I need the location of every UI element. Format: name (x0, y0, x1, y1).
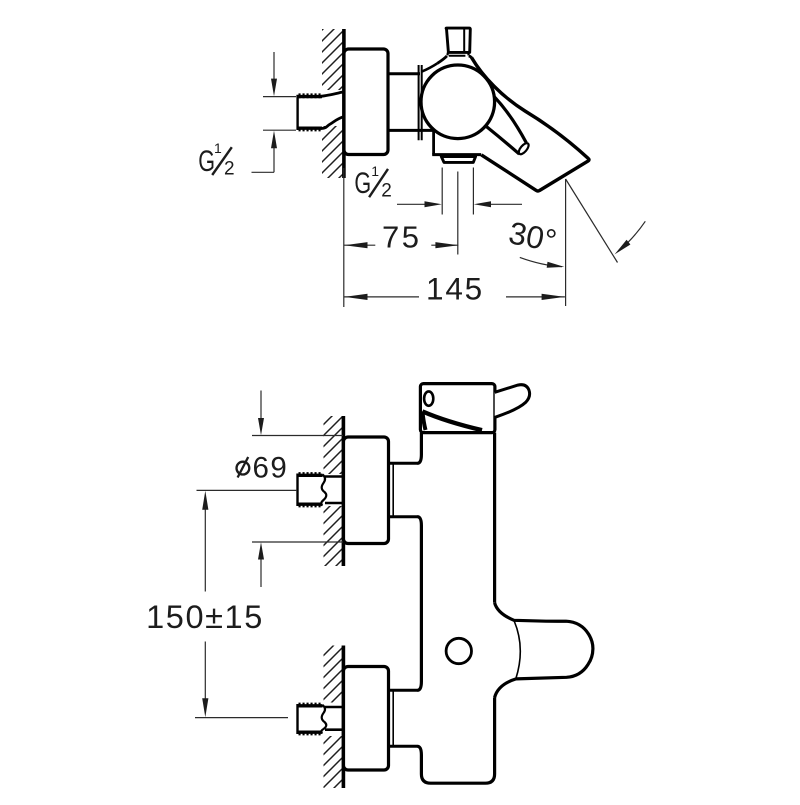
inlet nipple G1/2 (threaded, eccentric taper) (298, 92, 344, 130)
lower nipple (298, 704, 344, 734)
extension lines inlet diameter (263, 96, 296, 98)
wall face extension line (343, 168, 345, 307)
30 deg vertical reference (565, 179, 567, 306)
small circle (diverter) on body (446, 638, 471, 663)
flange dia extension lines (252, 435, 343, 437)
lever tube with elliptical end (486, 97, 530, 156)
wall hatching lower segment (322, 126, 343, 178)
svg-text:2: 2 (381, 181, 392, 202)
handle housing (top box) (420, 384, 495, 433)
30 deg arc left (520, 257, 562, 266)
upper flange (escutcheon) (344, 437, 389, 544)
lower wall hatching (324, 646, 344, 703)
cartridge circle (421, 65, 495, 139)
lower wall face line (342, 646, 346, 789)
svg-text:1: 1 (214, 140, 222, 156)
svg-text:75: 75 (382, 219, 421, 254)
spout bulge (right side profile) (495, 603, 593, 698)
arrow stems (260, 391, 262, 419)
30 deg arc right (619, 221, 646, 251)
150 extension lines (197, 489, 298, 491)
svg-text:150±15: 150±15 (146, 599, 264, 635)
outlet extension lines (441, 168, 443, 215)
150 dimension line (204, 500, 206, 592)
upper wall face line (342, 416, 346, 566)
main body outline (front profile) (417, 433, 494, 784)
upper connector (389, 463, 418, 516)
handle knob (446, 28, 470, 52)
outlet width arrow stems (397, 203, 425, 205)
svg-text:1: 1 (371, 163, 379, 179)
label G1/2 (left inlet) (198, 140, 234, 179)
upper wall hatching (324, 416, 344, 474)
svg-text:G: G (354, 165, 371, 199)
handle neck and cone (422, 53, 472, 72)
wall face line (342, 29, 346, 178)
145 dimension line (broken for text) (344, 296, 419, 298)
knob ellipse on housing (424, 391, 433, 405)
body lower outline (432, 130, 481, 155)
svg-text:145: 145 (426, 270, 484, 306)
upper nipple (298, 474, 344, 507)
bottom outlet G1/2 (441, 157, 475, 163)
lever finger (sticking right) (495, 385, 530, 418)
75 dimension line (broken for text) (344, 244, 375, 246)
svg-text:2: 2 (224, 158, 235, 179)
label dia 69 (237, 451, 289, 484)
connector between flange and body (388, 65, 433, 140)
arrowheads (271, 79, 277, 97)
lever curve inside housing (422, 411, 482, 430)
lower connector (389, 690, 418, 746)
svg-text:69: 69 (253, 451, 289, 484)
wall flange (escutcheon) (344, 49, 388, 155)
wall hatching upper segment (322, 29, 343, 90)
label G1/2 (bottom outlet) (354, 163, 391, 202)
arrow stems (273, 52, 275, 79)
lower flange (escutcheon) (344, 667, 389, 771)
spout (chisel shaped) (472, 58, 590, 192)
spout inner arc (514, 621, 520, 679)
30 deg slanted reference (566, 179, 618, 263)
